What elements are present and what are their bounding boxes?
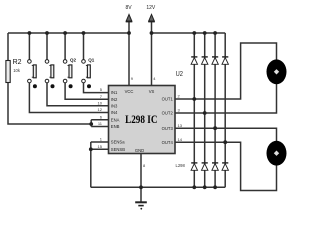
svg-text:12V: 12V bbox=[146, 5, 156, 11]
wire right top bus bbox=[152, 32, 226, 34]
wire button S2 to IN3 bbox=[47, 83, 109, 106]
svg-text:IN1: IN1 bbox=[111, 90, 118, 95]
svg-text:3: 3 bbox=[178, 108, 181, 113]
wire ENA stub pin 6 bbox=[91, 119, 108, 121]
svg-text:L298: L298 bbox=[176, 163, 186, 168]
node bus-S4 bbox=[82, 31, 86, 35]
resistor R2 bbox=[6, 59, 22, 83]
pushbutton S2 bbox=[45, 60, 54, 89]
svg-text:L298 IC: L298 IC bbox=[125, 114, 157, 126]
diode D8 bbox=[222, 163, 228, 170]
svg-text:OUT4: OUT4 bbox=[162, 140, 174, 145]
node SENSB tie bbox=[89, 147, 93, 151]
svg-text:10: 10 bbox=[98, 100, 103, 105]
ground bbox=[135, 202, 147, 209]
node OUT3-D3 bbox=[213, 126, 217, 130]
wire button S2 riser bbox=[46, 33, 48, 60]
svg-text:OUT2: OUT2 bbox=[162, 111, 174, 116]
power symbol 12V bbox=[146, 5, 156, 22]
node bus-D1 bbox=[192, 31, 196, 35]
wire button S4 riser bbox=[83, 33, 85, 60]
wire SENSB stub pin 15 bbox=[91, 148, 109, 150]
wire 8V riser to VCC pin 9 bbox=[128, 21, 130, 85]
node bus-12V bbox=[150, 31, 154, 35]
wire diode column 3 bbox=[214, 33, 216, 187]
svg-text:4: 4 bbox=[153, 76, 156, 81]
node bus-D3 bbox=[213, 31, 217, 35]
svg-text:SENSa: SENSa bbox=[111, 140, 125, 145]
svg-text:9: 9 bbox=[131, 76, 134, 81]
wire diode column 1 bbox=[193, 33, 195, 187]
svg-text:U2: U2 bbox=[176, 71, 184, 79]
wire diode column 2 bbox=[204, 33, 206, 187]
wire button S3 riser bbox=[64, 33, 66, 60]
node bus-S2 bbox=[45, 31, 49, 35]
svg-text:Q2: Q2 bbox=[70, 58, 77, 63]
node OUT2-D2 bbox=[203, 111, 207, 115]
wire button S1 riser bbox=[28, 33, 30, 60]
diode D4 bbox=[222, 57, 228, 64]
svg-text:1: 1 bbox=[100, 137, 103, 142]
node gnd-IC bbox=[139, 185, 143, 189]
wire OUT1 to motor M1 top bbox=[175, 43, 277, 99]
svg-text:12: 12 bbox=[98, 107, 103, 112]
wire OUT4 to motor M2 bottom bbox=[175, 142, 277, 190]
diode D3 bbox=[212, 57, 218, 64]
wire button S4 to IN1 bbox=[84, 83, 109, 93]
svg-text:GND: GND bbox=[135, 148, 144, 153]
svg-text:IN4: IN4 bbox=[111, 110, 118, 115]
wire diode column 4 bbox=[224, 33, 226, 187]
svg-text:ENB: ENB bbox=[111, 124, 120, 129]
diode D6 bbox=[202, 163, 208, 170]
svg-text:13: 13 bbox=[178, 123, 183, 128]
node bus-8V bbox=[127, 31, 131, 35]
svg-text:IN2: IN2 bbox=[111, 97, 118, 102]
svg-text:15: 15 bbox=[98, 144, 103, 149]
svg-text:8V: 8V bbox=[125, 5, 132, 11]
pushbutton S1 bbox=[28, 60, 37, 89]
wire ENB stub pin 11 bbox=[91, 126, 108, 128]
diode D5 bbox=[191, 163, 197, 170]
power symbol 8V bbox=[125, 5, 132, 22]
svg-text:VS: VS bbox=[149, 89, 155, 94]
svg-text:6: 6 bbox=[100, 114, 103, 119]
motor M1 bbox=[267, 59, 287, 84]
svg-text:10k: 10k bbox=[13, 68, 21, 73]
svg-text:8: 8 bbox=[143, 163, 146, 168]
node gnd-D7 bbox=[213, 185, 217, 189]
motor M2 bbox=[267, 141, 287, 166]
wire ground bus bbox=[91, 186, 225, 188]
wire left top bus bbox=[8, 32, 129, 34]
svg-text:2: 2 bbox=[178, 94, 181, 99]
node bus-S1 bbox=[28, 31, 32, 35]
diode D7 bbox=[212, 163, 218, 170]
svg-text:VCC: VCC bbox=[125, 89, 134, 94]
node OUT4-D4 bbox=[223, 140, 227, 144]
svg-text:OUT3: OUT3 bbox=[162, 126, 174, 131]
wire button S1 to IN4 bbox=[29, 83, 108, 113]
svg-text:11: 11 bbox=[98, 121, 103, 126]
svg-text:IN3: IN3 bbox=[111, 103, 118, 108]
svg-text:SENSB: SENSB bbox=[111, 147, 125, 152]
pushbutton S3 (Q2) bbox=[63, 58, 76, 89]
node junction dots bbox=[28, 31, 228, 189]
wire 12V riser to VS pin 4 bbox=[151, 21, 153, 85]
diode D1 bbox=[191, 57, 197, 64]
wire GND pin 8 stub bbox=[140, 154, 142, 203]
node gnd-D5 bbox=[192, 185, 196, 189]
wire button S3 to IN2 bbox=[65, 83, 108, 100]
wire R2 top lead bbox=[7, 33, 9, 61]
wire OUT2 to motor M1 bottom bbox=[175, 84, 277, 113]
wire SENS tie down to ground bus bbox=[90, 142, 92, 187]
wire ENA-ENB tie bbox=[90, 120, 92, 127]
pushbutton S4 (Q1) bbox=[82, 58, 95, 89]
svg-text:R2: R2 bbox=[13, 59, 22, 66]
node bus-S3 bbox=[63, 31, 67, 35]
diode D2 bbox=[202, 57, 208, 64]
svg-text:OUT1: OUT1 bbox=[162, 97, 174, 102]
svg-text:14: 14 bbox=[178, 137, 183, 142]
svg-text:7: 7 bbox=[100, 94, 103, 99]
wire OUT3 to motor M2 top bbox=[175, 128, 277, 141]
svg-text:5: 5 bbox=[100, 87, 103, 92]
node ENA-ENB-R2 bbox=[89, 122, 93, 126]
wire SENSA stub pin 1 bbox=[91, 141, 109, 143]
wire R2 bottom lead to ENA/ENB tie bbox=[8, 83, 91, 125]
svg-text:ENA: ENA bbox=[111, 117, 120, 122]
node gnd-D6 bbox=[203, 185, 207, 189]
op-amp U2 L298 IC body bbox=[109, 71, 184, 154]
svg-text:Q1: Q1 bbox=[88, 58, 95, 63]
node bus-D2 bbox=[203, 31, 207, 35]
node OUT1-D1 bbox=[192, 97, 196, 101]
